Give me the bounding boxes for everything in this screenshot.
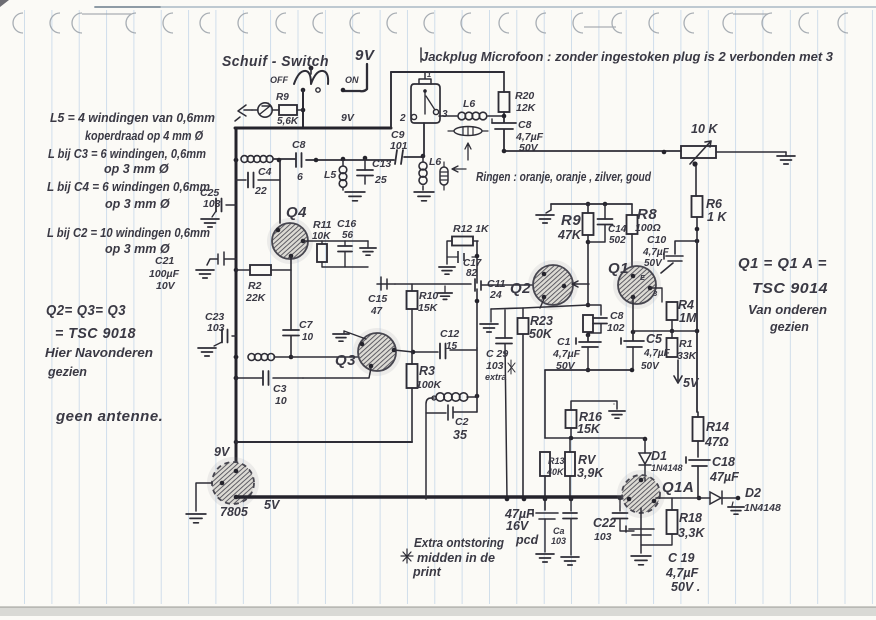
wire mic top line	[391, 71, 504, 73]
svg-text:Q1A: Q1A	[662, 479, 694, 496]
wire switch pole down	[301, 90, 306, 128]
svg-text:103: 103	[594, 531, 612, 543]
capacitor C47uF 16V pcd	[504, 499, 558, 552]
arrow 5V below R1	[674, 360, 700, 390]
jack J1 microfoon	[399, 70, 448, 124]
svg-text:D2: D2	[745, 486, 761, 500]
svg-text:82: 82	[466, 268, 478, 279]
capacitor C-emitter bypass	[626, 526, 654, 535]
resistor RV 3.9K	[565, 438, 604, 499]
svg-text:D1: D1	[651, 449, 667, 463]
wire bottom rail	[236, 496, 656, 502]
svg-text:R12 1K: R12 1K	[453, 223, 490, 235]
svg-text:50V: 50V	[519, 142, 539, 154]
svg-text:6: 6	[297, 171, 303, 183]
wire Q1A emitter down	[640, 508, 642, 553]
note extra ontstoring	[401, 536, 504, 579]
wire emitter row	[491, 305, 588, 309]
svg-text:50V: 50V	[641, 361, 660, 372]
wire Q4 base row	[303, 240, 368, 242]
capacitor C22 103	[593, 498, 634, 543]
resistor R9 5.6K	[272, 92, 303, 127]
resistor colour illustration	[440, 127, 488, 191]
svg-text:103: 103	[551, 536, 566, 546]
svg-text:R11: R11	[313, 219, 332, 231]
svg-text:Q4: Q4	[286, 204, 307, 221]
wire feedback column lower	[475, 289, 480, 348]
ground under bias row	[438, 286, 452, 299]
svg-text:gezien: gezien	[769, 320, 809, 334]
svg-text:C14: C14	[608, 224, 627, 235]
svg-text:103: 103	[203, 198, 221, 210]
capacitor C18 47uF	[686, 455, 739, 500]
wire riser to mic line	[390, 72, 392, 128]
svg-text:extra: extra	[485, 372, 507, 382]
svg-text:10 K: 10 K	[691, 122, 718, 136]
coil L6	[439, 98, 504, 120]
resistor R18 3.3K	[641, 498, 705, 545]
left supply rail	[234, 128, 239, 471]
ground at C6	[561, 557, 579, 565]
ground at Q3 top	[333, 331, 366, 341]
wire Q1 base row right	[650, 288, 662, 302]
svg-text:gezien: gezien	[47, 365, 87, 379]
svg-text:1 K: 1 K	[707, 210, 727, 224]
svg-text:Jackplug Microfoon : zonder i: Jackplug Microfoon : zonder ingestoken p…	[421, 50, 833, 64]
wire bottom coupling row	[545, 368, 634, 373]
wire supply row mid	[551, 202, 632, 207]
note Q2 Q3 type	[45, 302, 153, 379]
svg-text:15K: 15K	[577, 422, 601, 436]
ground hook supply row	[536, 204, 554, 223]
svg-text:1N4148: 1N4148	[651, 463, 683, 473]
svg-text:101: 101	[390, 140, 408, 152]
svg-text:47: 47	[370, 306, 383, 317]
capacitor C25 103	[200, 187, 236, 227]
note L5 winding spec	[50, 111, 215, 143]
wire pot to ground	[716, 151, 786, 153]
ground mid right	[613, 403, 615, 405]
capacitor C23 103	[198, 311, 236, 356]
svg-text:C12: C12	[440, 328, 459, 340]
svg-text:22K: 22K	[245, 292, 267, 304]
LED D3	[252, 103, 272, 117]
capacitor C19 4.7uF	[665, 551, 700, 594]
svg-text:C8: C8	[518, 119, 532, 131]
svg-text:Q3: Q3	[335, 352, 356, 369]
svg-text:geen antenne.: geen antenne.	[55, 408, 163, 425]
capacitor C7 10	[283, 319, 314, 357]
wire 9V to switch	[341, 64, 367, 92]
resistor R20 12K	[499, 72, 537, 118]
capacitor C12 15	[440, 328, 477, 359]
capacitor C8 4.7uF	[492, 114, 544, 154]
svg-text:50K: 50K	[529, 327, 553, 341]
svg-text:R9: R9	[276, 92, 289, 103]
ground at R12	[439, 267, 455, 274]
svg-text:C4: C4	[258, 166, 272, 178]
svg-text:5V: 5V	[683, 376, 700, 390]
svg-text:L bij C3 = 6 windingen, 0,6mm: L bij C3 = 6 windingen, 0,6mm	[48, 147, 206, 161]
svg-text:C16: C16	[337, 218, 356, 230]
note L bij C4 spec	[47, 180, 210, 211]
ground at 47uF	[536, 554, 554, 562]
tank circuit L2 C2	[426, 348, 479, 499]
wire right rail upper	[695, 241, 700, 412]
ground at D2	[728, 502, 744, 514]
note Q1 type	[738, 255, 828, 334]
svg-text:12K: 12K	[516, 102, 537, 114]
svg-text:10: 10	[302, 332, 314, 343]
svg-text:Q1 = Q1 A =: Q1 = Q1 A =	[738, 255, 827, 272]
svg-text:4,7µF: 4,7µF	[552, 348, 581, 360]
svg-text:7805: 7805	[220, 505, 249, 519]
transistor Q2	[510, 260, 578, 310]
svg-text:56: 56	[342, 230, 354, 241]
svg-text:10V: 10V	[156, 280, 176, 292]
wire Q4 emitter down	[290, 256, 292, 330]
svg-text:C3: C3	[273, 383, 287, 395]
note ringen colour code	[476, 170, 651, 184]
svg-text:C5: C5	[646, 332, 663, 346]
svg-text:print: print	[412, 565, 442, 579]
ground arrow at LED	[235, 105, 252, 121]
wire 9V feed row	[236, 441, 412, 443]
svg-text:ON: ON	[345, 75, 359, 85]
svg-text:33K: 33K	[677, 350, 698, 362]
capacitor C1 4.7uF	[552, 335, 601, 372]
wire rf row mid	[306, 156, 394, 163]
capacitor C17 82	[447, 251, 482, 279]
svg-text:R20: R20	[515, 90, 534, 102]
label 9V supply	[355, 47, 376, 64]
ground under L5 C13	[345, 192, 365, 201]
capacitor C9 101	[390, 129, 408, 164]
capacitor C4 22	[236, 166, 280, 197]
svg-text:C21: C21	[155, 255, 174, 267]
svg-text:25: 25	[374, 174, 387, 186]
svg-text:22: 22	[254, 185, 267, 197]
wire pot wiper down	[695, 166, 697, 196]
ground at C16	[360, 248, 376, 255]
capacitor C13 25	[357, 158, 391, 186]
note L bij C2 spec	[47, 226, 210, 256]
svg-text:op 3 mm Ø: op 3 mm Ø	[105, 197, 171, 211]
ground at pot	[777, 152, 795, 164]
svg-text:= TSC 9018: = TSC 9018	[55, 325, 136, 342]
wire R9 column	[586, 202, 591, 308]
resistor R14 47ohm	[693, 412, 729, 457]
svg-text:47K: 47K	[557, 228, 582, 242]
svg-text:40K: 40K	[546, 467, 565, 477]
wire C3 row to Q3	[303, 368, 371, 378]
coil L1 antenna	[234, 156, 273, 163]
svg-text:C 29: C 29	[486, 348, 508, 360]
svg-text:9V: 9V	[214, 445, 231, 459]
diode D1 1N4148	[639, 439, 683, 478]
svg-text:R13: R13	[548, 456, 565, 466]
wire base row Q1A	[545, 436, 647, 442]
resistor R10 15K	[407, 284, 439, 352]
svg-text:100µF: 100µF	[149, 268, 180, 280]
resistor R12 1K	[447, 223, 490, 264]
svg-text:2: 2	[399, 113, 406, 124]
svg-text:Q2= Q3= Q3: Q2= Q3= Q3	[46, 302, 126, 319]
note geen antenne	[55, 408, 163, 425]
capacitor C11 24	[475, 278, 506, 301]
note jackplug behaviour	[421, 48, 833, 64]
ground under Q1A	[631, 556, 651, 565]
svg-text:op 3 mm Ø: op 3 mm Ø	[105, 242, 171, 256]
svg-text:Q2: Q2	[510, 280, 531, 297]
svg-text:L bij C4 = 6 windingen 0,6mm: L bij C4 = 6 windingen 0,6mm	[47, 180, 210, 194]
wire Q4 collector up	[279, 160, 281, 223]
svg-text:pcd: pcd	[515, 533, 539, 547]
svg-text:C 19: C 19	[668, 551, 694, 565]
svg-text:3,9K: 3,9K	[577, 466, 604, 480]
wire R11 C16 common	[322, 241, 368, 267]
svg-text:C8: C8	[610, 310, 624, 322]
svg-text:op 3 mm Ø: op 3 mm Ø	[104, 162, 170, 176]
transistor Q1A	[617, 470, 694, 518]
coil L3	[234, 354, 294, 361]
svg-text:C18: C18	[712, 455, 735, 469]
svg-text:midden in de: midden in de	[417, 551, 495, 565]
svg-text:C10: C10	[647, 234, 666, 246]
label 5V rail	[264, 498, 281, 512]
wire emitter to D2	[656, 497, 710, 499]
wire base bias row	[395, 283, 471, 285]
svg-text:Q1: Q1	[608, 260, 629, 277]
capacitor C14 502	[588, 204, 627, 246]
svg-text:R9: R9	[561, 212, 581, 229]
wire rf row left	[273, 158, 295, 163]
svg-text:R23: R23	[530, 314, 553, 328]
svg-text:C8: C8	[292, 139, 306, 151]
svg-text:C7: C7	[299, 319, 314, 331]
ground under L6 choke	[414, 192, 434, 201]
svg-text:10: 10	[275, 395, 287, 407]
capacitor C15 47	[368, 277, 395, 317]
transistor Q3	[335, 328, 401, 376]
svg-text:R2: R2	[248, 280, 262, 292]
diode D2 1N4148	[710, 486, 781, 514]
svg-text:47Ω: 47Ω	[704, 435, 729, 449]
svg-text:9V: 9V	[355, 47, 376, 64]
note L bij C3 spec	[48, 147, 206, 176]
svg-text:47µF: 47µF	[709, 470, 739, 484]
resistor R11 10K	[312, 219, 332, 267]
svg-text:16V: 16V	[506, 519, 530, 533]
svg-text:50V .: 50V .	[671, 580, 700, 594]
svg-text:C1: C1	[557, 336, 571, 348]
svg-text:5V: 5V	[264, 498, 281, 512]
resistor R8 100ohm	[627, 204, 661, 266]
wire D1 to Q1A	[644, 478, 646, 481]
svg-text:Extra ontstoring: Extra ontstoring	[414, 536, 504, 550]
label 9V at switch	[341, 112, 355, 124]
svg-text:3: 3	[442, 109, 448, 120]
svg-text:5,6K: 5,6K	[277, 116, 299, 127]
svg-text:koperdraad op 4 mm Ø: koperdraad op 4 mm Ø	[85, 129, 204, 143]
svg-text:L5: L5	[324, 169, 336, 181]
wire arrow into Q2	[572, 281, 589, 287]
capacitor C10 4.7uF	[642, 234, 699, 273]
svg-text:R18: R18	[679, 511, 702, 525]
capacitor C8 6p	[292, 139, 306, 183]
resistor R3 100K	[407, 352, 443, 442]
wire Q3 collector row	[394, 350, 438, 355]
svg-text:100K: 100K	[416, 379, 443, 391]
svg-text:Van onderen: Van onderen	[748, 303, 827, 317]
svg-text:Hier Navonderen: Hier Navonderen	[45, 346, 153, 360]
regulator U1 7805	[196, 445, 259, 519]
wire to Q3 base	[291, 356, 360, 358]
svg-text:R6: R6	[706, 197, 723, 211]
svg-text:Ca: Ca	[553, 526, 565, 536]
svg-text:24: 24	[489, 289, 502, 301]
capacitor C29 103 extra	[485, 310, 515, 499]
svg-text:C13: C13	[372, 158, 391, 170]
svg-text:102: 102	[607, 322, 625, 334]
svg-text:C15: C15	[368, 293, 387, 305]
svg-text:9V: 9V	[341, 112, 355, 124]
svg-text:R3: R3	[419, 364, 435, 378]
svg-text:C2: C2	[455, 416, 469, 428]
resistor R16 15K	[566, 401, 618, 438]
svg-text:L6: L6	[429, 156, 441, 168]
wire top-left rail	[235, 127, 391, 130]
svg-text:RV: RV	[578, 453, 597, 467]
coil L5	[324, 160, 347, 190]
wire base bias row q1	[633, 330, 697, 332]
svg-text:10K: 10K	[312, 231, 331, 242]
resistor R1 33K	[667, 331, 698, 362]
capacitor C16 56	[337, 218, 356, 267]
resistor R13 40K	[540, 452, 565, 499]
wire jack pin2 down	[423, 123, 425, 156]
svg-text:R14: R14	[706, 420, 729, 434]
ground at emitter row	[480, 309, 498, 332]
svg-text:4,7µF: 4,7µF	[665, 566, 699, 580]
resistor R4 1M	[667, 298, 697, 333]
resistor R9 47K	[557, 212, 594, 242]
switch S1 schuif-switch	[222, 53, 359, 92]
svg-text:15K: 15K	[418, 302, 439, 314]
svg-text:100Ω: 100Ω	[635, 222, 661, 234]
wire Q1 collector down	[631, 297, 636, 334]
svg-text:R1: R1	[679, 338, 693, 350]
wire volume line	[502, 149, 681, 155]
wire C11 to Q2 base	[482, 284, 534, 286]
svg-text:3,3K: 3,3K	[678, 526, 705, 540]
svg-text:L6: L6	[463, 98, 475, 110]
svg-text:R8: R8	[637, 206, 657, 223]
svg-text:L5 = 4 windingen van 0,6mm: L5 = 4 windingen van 0,6mm	[50, 111, 215, 125]
capacitor C21 100uF	[149, 252, 236, 292]
resistor R23 50K	[518, 308, 553, 499]
wire rf row right	[404, 154, 425, 159]
transistor Q1	[608, 260, 661, 309]
capacitor C5 4.7uF	[621, 332, 671, 372]
capacitor C3 10	[234, 371, 303, 407]
transistor Q4	[267, 204, 313, 264]
svg-text:502: 502	[609, 235, 626, 246]
svg-text:50V: 50V	[644, 258, 663, 269]
capacitor C8b 102 block	[583, 305, 625, 337]
svg-text:103: 103	[486, 360, 504, 372]
svg-text:1: 1	[427, 70, 431, 79]
svg-text:1M: 1M	[679, 311, 697, 325]
ground at R16	[609, 411, 625, 418]
svg-text:TSC 9014: TSC 9014	[752, 280, 828, 297]
coil L6 choke	[419, 156, 441, 190]
svg-text:R10: R10	[419, 290, 438, 302]
svg-text:L bij C2 = 10 windingen 0,6mm: L bij C2 = 10 windingen 0,6mm	[47, 226, 210, 240]
resistor R2 22K	[236, 265, 291, 304]
ground at 7805	[186, 514, 206, 523]
wire R13 column upper	[544, 370, 546, 438]
svg-text:Ringen : oranje, oranje , zilv: Ringen : oranje, oranje , zilver, goud	[476, 170, 651, 184]
wire feedback column	[475, 241, 480, 283]
potentiometer P1 10K	[681, 122, 718, 167]
wire Q2 emitter to row	[540, 299, 544, 308]
svg-text:35: 35	[453, 428, 468, 442]
svg-text:R4: R4	[678, 298, 694, 312]
resistor R6 1K	[692, 196, 728, 241]
svg-text:1N4148: 1N4148	[744, 502, 781, 514]
capacitor C6 103	[551, 499, 577, 555]
svg-text:OFF: OFF	[270, 75, 288, 85]
svg-text:4,7µF: 4,7µF	[643, 348, 671, 359]
